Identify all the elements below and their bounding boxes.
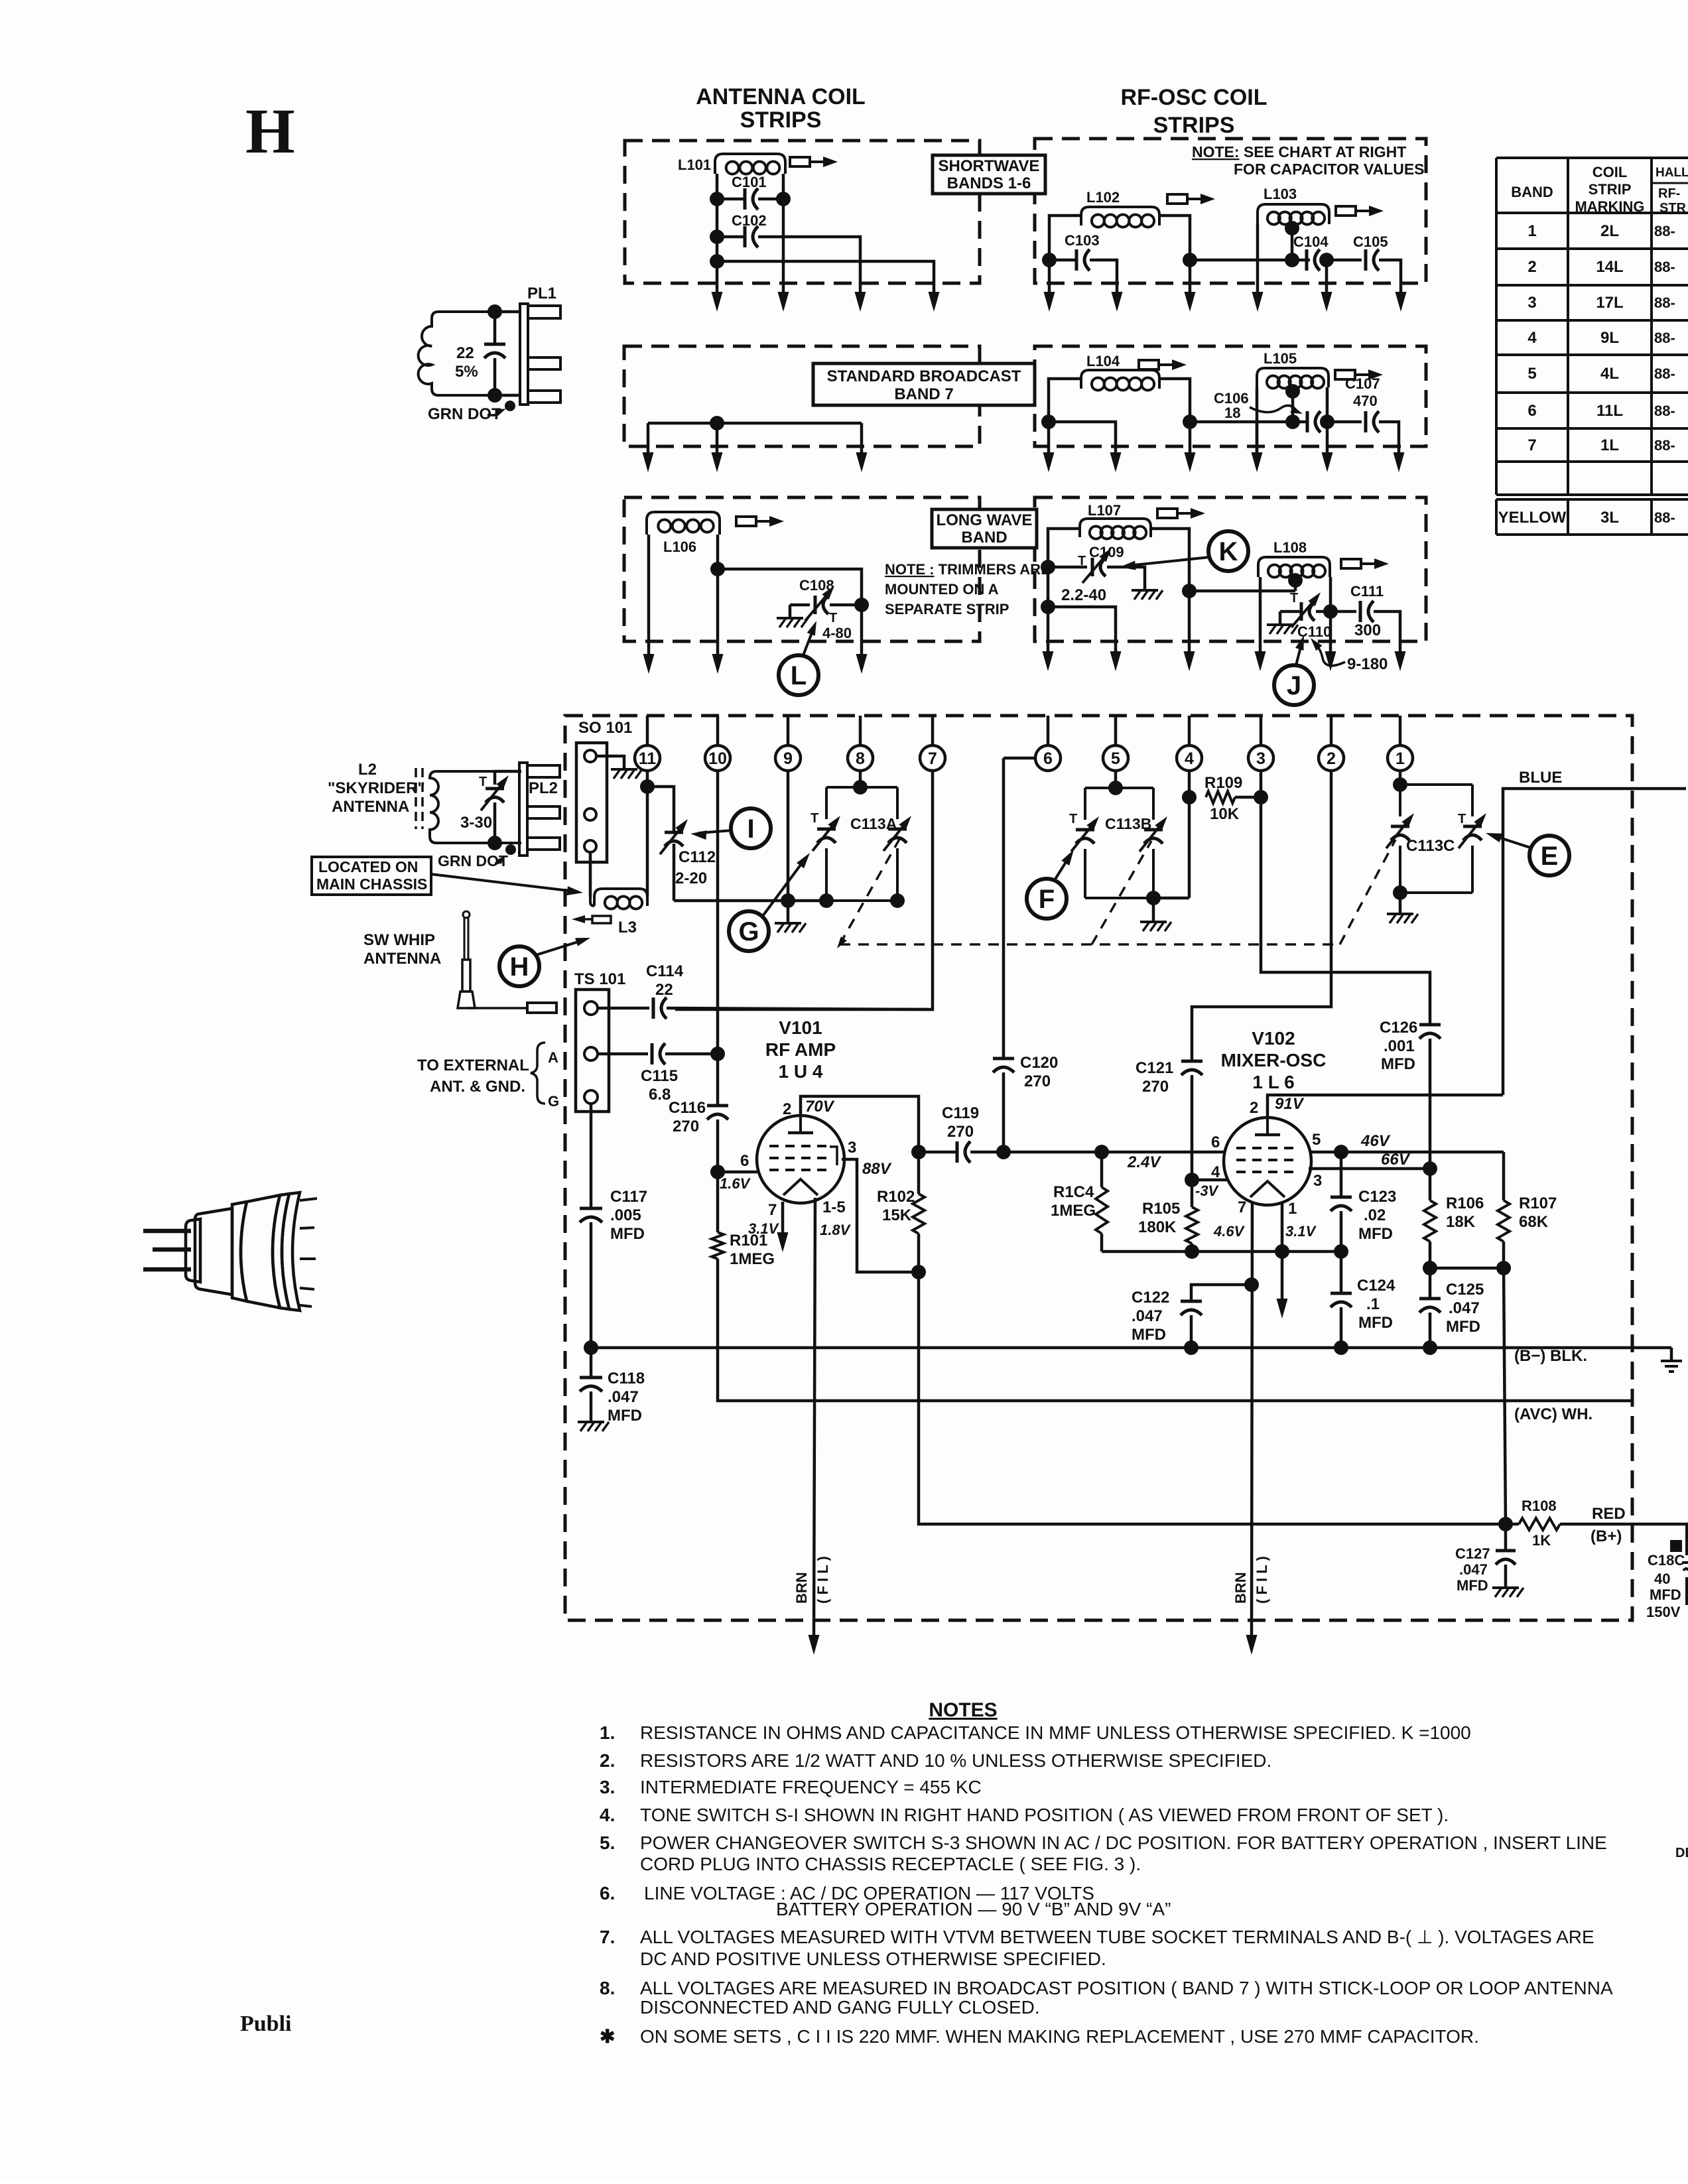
arrow down pin10 col (712, 292, 723, 312)
svg-text:6: 6 (1527, 402, 1536, 420)
junction (819, 893, 834, 908)
wire C109 left (1048, 566, 1087, 569)
svg-text:40: 40 (1654, 1571, 1670, 1587)
junction L108 tap (1288, 573, 1303, 588)
svg-text:GRN DOT: GRN DOT (438, 852, 508, 869)
svg-text:1: 1 (1396, 749, 1405, 768)
label box LOCATED ON MAIN CHASSIS (312, 857, 431, 895)
bracket grid (830, 1147, 837, 1165)
capacitor C111 (1359, 601, 1362, 622)
svg-text:300: 300 (1354, 621, 1381, 639)
junction (584, 1340, 598, 1355)
arrow down pin8 col (855, 292, 866, 312)
svg-text:.02: .02 (1364, 1206, 1386, 1224)
svg-text:C110: C110 (1297, 623, 1331, 640)
svg-text:C122: C122 (1132, 1289, 1169, 1307)
svg-text:1.8V: 1.8V (820, 1222, 852, 1238)
junction (1094, 1145, 1109, 1159)
svg-text:88V: 88V (862, 1160, 892, 1178)
svg-text:T: T (811, 811, 818, 826)
svg-text:C109: C109 (1089, 544, 1124, 560)
wire to pin5 col (1049, 422, 1116, 455)
junction (1319, 253, 1334, 267)
wire C115 left (598, 1053, 648, 1056)
capacitor C125 (1419, 1297, 1441, 1301)
plug PL2 prong 1 (527, 765, 560, 777)
svg-text:T: T (1290, 591, 1298, 606)
svg-text:L103: L103 (1264, 186, 1297, 202)
svg-text:C121: C121 (1136, 1059, 1173, 1077)
arrow down pin11 col (643, 452, 654, 472)
svg-text:2L: 2L (1600, 222, 1619, 240)
arrow down pin6 col (1043, 452, 1055, 472)
pin 5 stub (1114, 716, 1118, 745)
arrow down pin8 col (856, 452, 868, 472)
svg-text:46V: 46V (1360, 1132, 1391, 1150)
arrow down pin11 col (643, 654, 655, 674)
svg-text:(AVC) WH.: (AVC) WH. (1514, 1405, 1592, 1423)
wire V102 pin3 (1309, 1167, 1430, 1171)
svg-text:.047: .047 (608, 1388, 639, 1406)
svg-text:V102: V102 (1252, 1028, 1295, 1049)
wire gang bus (674, 899, 826, 903)
tube plug drawing (143, 1229, 191, 1234)
pin 6 stub (1047, 716, 1050, 745)
arrow V101 pin7 fil (777, 1232, 789, 1252)
wire V101 pin7 (781, 1202, 785, 1235)
arrow down pin7 col (929, 292, 940, 312)
plug PL1 prong 1 (528, 306, 560, 318)
wire C123 col top (1340, 1152, 1343, 1197)
wire col pin10 row1 lower (716, 237, 719, 261)
wire to pin5 col (1048, 607, 1116, 654)
wire BLUE B+ line (1503, 789, 1686, 1095)
wire to L108 tap (1189, 590, 1295, 593)
rf-osc strip box row2 (broadcast) (1035, 346, 1426, 446)
svg-text:YELLOW: YELLOW (1498, 509, 1567, 527)
svg-text:C113A: C113A (850, 815, 897, 832)
svg-text:2: 2 (1527, 258, 1536, 276)
svg-text:COIL: COIL (1592, 164, 1628, 180)
svg-text:470: 470 (1353, 393, 1378, 409)
svg-text:J: J (1287, 671, 1301, 700)
junction (710, 254, 724, 269)
junction L103 tap (1285, 221, 1299, 235)
svg-text:270: 270 (1024, 1072, 1051, 1090)
svg-text:1MEG: 1MEG (1051, 1202, 1096, 1220)
resistor R105 (1186, 1207, 1198, 1244)
squiggle 9-180 pointer (1315, 643, 1345, 666)
svg-text:ALL VOLTAGES ARE MEASURED: ALL VOLTAGES ARE MEASURED IN BROADCAST P… (640, 1978, 1613, 1998)
wire C121 down (1191, 1075, 1194, 1180)
terminal hole (584, 1090, 598, 1104)
circle F (1027, 879, 1067, 919)
wire R102 top (917, 1152, 921, 1194)
wire C111 link (1331, 610, 1356, 613)
svg-text:7: 7 (1527, 436, 1536, 454)
wire pin2 to C121 (1192, 771, 1331, 1061)
svg-text:5: 5 (1527, 365, 1536, 383)
label box SHORTWAVE BANDS 1-6 (933, 155, 1045, 194)
svg-text:LOCATED ON: LOCATED ON (318, 858, 418, 875)
svg-text:3.: 3. (600, 1777, 615, 1797)
arrow down pin10 col (712, 654, 724, 674)
coil L108 (1258, 557, 1330, 577)
arrow I to C112 (698, 830, 732, 833)
svg-text:MFD: MFD (1358, 1314, 1393, 1332)
wire L106 left leg (647, 535, 651, 657)
wire R101 down to AVC (718, 1259, 1632, 1401)
junction (1275, 1244, 1289, 1259)
wire C118 top (590, 1348, 593, 1378)
svg-text:4-80: 4-80 (822, 625, 852, 641)
svg-text:18K: 18K (1446, 1213, 1476, 1231)
trimmer C113A main (888, 828, 907, 831)
svg-text:C115: C115 (641, 1067, 678, 1085)
svg-text:1 L 6: 1 L 6 (1252, 1072, 1294, 1092)
wire pin3 col drop (1256, 422, 1259, 455)
junction (1108, 781, 1123, 795)
junction (1496, 1261, 1511, 1275)
wire C110 left (1280, 610, 1300, 613)
svg-text:5%: 5% (455, 363, 478, 381)
plug PL2 bar (519, 763, 527, 856)
svg-text:( F I L ): ( F I L ) (814, 1556, 831, 1604)
svg-text:RESISTANCE IN OHMS AND CAPACI: RESISTANCE IN OHMS AND CAPACITANCE IN MM… (640, 1722, 1471, 1743)
arrow L to C108 (803, 626, 814, 655)
loop antenna L1 (419, 312, 495, 395)
svg-text:4.: 4. (600, 1805, 615, 1825)
wire L108 tap (1294, 577, 1297, 591)
pin 5 circle (1103, 745, 1128, 771)
svg-text:17L: 17L (1596, 294, 1623, 312)
svg-text:G: G (738, 917, 759, 946)
svg-text:STRIP: STRIP (1589, 181, 1632, 198)
wire G terminal down (590, 1104, 593, 1208)
wire to PL1 (495, 310, 521, 314)
wire C101 left (717, 198, 745, 201)
wire pin6 col (1047, 567, 1050, 607)
wire pin6soc col (1002, 758, 1006, 1059)
arrow E to C113C T (1494, 836, 1530, 848)
wire R107 down (1504, 1268, 1506, 1524)
junction (1146, 891, 1161, 905)
whip antenna (463, 911, 470, 918)
junction (1183, 415, 1197, 429)
pin 4 stub (1188, 716, 1191, 745)
trimmer C112 (665, 831, 683, 834)
svg-text:R108: R108 (1522, 1498, 1557, 1514)
capacitor C114 (652, 997, 655, 1019)
circle I (731, 808, 771, 848)
wire pin4 col drop (1189, 422, 1192, 455)
capacitor C102 (744, 226, 747, 247)
wire L103 left lead (1256, 224, 1260, 294)
svg-text:G: G (548, 1093, 559, 1110)
wire col pin10 row1 (716, 199, 719, 237)
circle K (1208, 531, 1248, 571)
svg-text:C101: C101 (732, 174, 767, 190)
wire pin4 col drop (1189, 260, 1192, 294)
wire pin5 to C113B (1114, 771, 1118, 788)
svg-text:C18C: C18C (1648, 1552, 1685, 1569)
wire L105 right lead (1326, 387, 1329, 422)
wire C102 to pin8 col (758, 237, 860, 294)
svg-text:PL1: PL1 (527, 285, 556, 302)
label box STANDARD BROADCAST BAND 7 (813, 363, 1035, 405)
svg-text:1: 1 (1288, 1200, 1297, 1218)
capacitor C123 (1331, 1196, 1352, 1199)
junction (1423, 1340, 1437, 1355)
capacitor C124 (1331, 1292, 1352, 1295)
pin 8 stub (859, 716, 862, 745)
svg-text:7: 7 (928, 749, 937, 768)
svg-text:SHORTWAVE: SHORTWAVE (939, 157, 1040, 175)
svg-text:88-: 88- (1654, 437, 1675, 454)
junction (1184, 1340, 1199, 1355)
svg-text:C127: C127 (1455, 1545, 1490, 1562)
ground earth B- (1661, 1360, 1682, 1362)
brace (531, 1043, 545, 1104)
junction (1185, 1173, 1199, 1187)
pin 2 stub (1330, 716, 1333, 745)
svg-text:2: 2 (783, 1100, 791, 1118)
capacitor C104 (1305, 249, 1309, 271)
junction (1041, 415, 1056, 429)
svg-text:2.: 2. (600, 1750, 615, 1771)
rf-osc strip box row3 (longwave) (1035, 497, 1426, 641)
antenna strip box row1 (shortwave) (625, 141, 980, 283)
junction (890, 893, 905, 908)
svg-text:(B−) BLK.: (B−) BLK. (1514, 1347, 1587, 1365)
tube V102 envelope (1224, 1118, 1311, 1205)
junction (1423, 1161, 1437, 1176)
capacitor C121 (1181, 1060, 1202, 1063)
svg-text:ON SOME SETS , C I I IS 22: ON SOME SETS , C I I IS 220 MMF. WHEN MA… (640, 2026, 1479, 2047)
svg-text:.005: .005 (610, 1206, 641, 1224)
svg-text:7: 7 (768, 1201, 777, 1219)
svg-text:4.6V: 4.6V (1213, 1223, 1246, 1240)
svg-text:C117: C117 (610, 1188, 647, 1206)
svg-text:BRN: BRN (793, 1572, 810, 1604)
wire R109 right (1235, 796, 1261, 799)
capacitor C105 (1364, 249, 1368, 271)
arrow down pin8 col (856, 654, 868, 674)
svg-text:F: F (1039, 885, 1055, 914)
svg-text:88-: 88- (1654, 365, 1675, 382)
resistor R108 (1519, 1518, 1560, 1530)
trimmer C113C T (1463, 825, 1482, 828)
ground C110 (1267, 623, 1293, 626)
coil L2 core dashes (415, 768, 417, 829)
indicator row3 (736, 517, 756, 526)
arrow down pin9 col (778, 292, 789, 312)
terminal hole (584, 1001, 598, 1015)
svg-text:MFD: MFD (1446, 1318, 1480, 1336)
svg-text:MFD: MFD (1358, 1225, 1393, 1243)
coil L106 (647, 512, 720, 535)
wire pin10 col to arrow (716, 261, 719, 294)
indicator L108 (1341, 559, 1361, 568)
arrow down pin3 col (1252, 292, 1264, 312)
wire C104 right (1323, 259, 1327, 262)
wire L103 tap (1291, 224, 1294, 260)
svg-text:11: 11 (639, 749, 657, 768)
wire B+ drop (919, 1272, 1506, 1524)
svg-text:9-180: 9-180 (1347, 655, 1388, 673)
wire L3 right lead (646, 787, 649, 897)
svg-text:C105: C105 (1353, 233, 1388, 250)
svg-text:PL2: PL2 (529, 779, 558, 797)
svg-text:C102: C102 (732, 212, 767, 229)
svg-text:T: T (1458, 812, 1466, 826)
arrow down pin1 col (1396, 292, 1407, 312)
svg-text:T: T (829, 611, 837, 625)
pin 10 circle (705, 745, 730, 771)
wire L108 right lead (1329, 577, 1332, 654)
junction (911, 1265, 926, 1279)
ground C109 (1132, 589, 1158, 592)
wire row2 left leg (647, 423, 650, 455)
coil L107 (1080, 519, 1151, 537)
ground pin9 (775, 922, 801, 925)
svg-text:-3V: -3V (1195, 1183, 1220, 1199)
svg-text:6.: 6. (600, 1883, 615, 1903)
svg-text:88-: 88- (1654, 223, 1675, 239)
capacitor C106 (1306, 411, 1309, 432)
wire V102 pin1 (1281, 1202, 1284, 1301)
wire C118 to gnd (590, 1391, 593, 1421)
svg-text:C124: C124 (1357, 1277, 1396, 1295)
svg-text:STR: STR (1659, 201, 1687, 216)
svg-text:L3: L3 (618, 919, 637, 936)
wire V101 pin3 (842, 1159, 919, 1272)
pin 9 circle (775, 745, 801, 771)
svg-text:ANTENNA: ANTENNA (363, 950, 441, 968)
svg-text:FOR CAPACITOR VALUES: FOR CAPACITOR VALUES (1234, 161, 1425, 178)
svg-text:C118: C118 (608, 1370, 645, 1387)
arrow down pin2 col (1322, 452, 1333, 472)
junction (1042, 253, 1057, 267)
svg-text:H: H (510, 952, 529, 982)
arrow down pin6 col (1044, 292, 1055, 312)
junction (996, 1145, 1011, 1159)
wire V101 pin6 (718, 1171, 758, 1174)
wire C111 right corner (1374, 611, 1400, 654)
svg-text:C107: C107 (1345, 375, 1380, 392)
coil L102 (1081, 207, 1159, 225)
svg-text:C123: C123 (1358, 1188, 1396, 1206)
svg-text:3: 3 (1256, 749, 1266, 768)
svg-text:BAND: BAND (1511, 184, 1553, 200)
capacitor C120 (993, 1057, 1014, 1060)
svg-text:RF-: RF- (1658, 186, 1680, 201)
wire row2 bus (648, 422, 862, 425)
svg-text:2: 2 (1250, 1099, 1258, 1117)
capacitor C117 (580, 1207, 602, 1210)
wire R108 right to edge (1560, 1523, 1688, 1526)
svg-text:5: 5 (1312, 1131, 1321, 1149)
svg-text:C113C: C113C (1406, 837, 1455, 855)
junction (781, 893, 795, 908)
wire C113B gnd stub (1152, 898, 1155, 921)
wire pin1 to C113C (1399, 771, 1402, 785)
label C18C block (1670, 1540, 1682, 1552)
capacitor C122 (1181, 1300, 1202, 1303)
svg-text:BAND 7: BAND 7 (894, 385, 953, 403)
svg-text:L108: L108 (1273, 539, 1307, 556)
svg-text:22: 22 (655, 981, 673, 999)
svg-text:180K: 180K (1138, 1218, 1177, 1236)
wire L102 left lead (1049, 216, 1081, 260)
circle J (1274, 665, 1314, 705)
svg-text:C125: C125 (1446, 1281, 1484, 1299)
arrow H to L3 (536, 940, 582, 955)
indicator L105 (1335, 370, 1355, 379)
arrow down pin4 col (1185, 292, 1196, 312)
wire C120 down (1002, 1072, 1006, 1152)
wire C125 bottom (1429, 1313, 1432, 1348)
svg-text:4L: 4L (1600, 365, 1619, 383)
svg-text:DE: DE (1675, 1846, 1688, 1860)
arrow down pin4 col (1185, 452, 1196, 472)
wire socket bottom to L3 (589, 852, 592, 897)
ground C127 (1492, 1586, 1519, 1589)
svg-text:STRIPS: STRIPS (740, 107, 822, 133)
circle G (729, 911, 769, 951)
svg-text:MIXER-OSC: MIXER-OSC (1221, 1050, 1327, 1070)
svg-text:22: 22 (456, 344, 474, 362)
svg-text:MFD: MFD (1650, 1586, 1681, 1603)
pin 3 stub (1260, 716, 1263, 745)
svg-text:270: 270 (673, 1118, 699, 1135)
junction (1285, 415, 1300, 429)
svg-text:6: 6 (1043, 749, 1053, 768)
svg-text:10K: 10K (1210, 805, 1240, 823)
svg-text:1.: 1. (600, 1722, 615, 1743)
svg-text:C104: C104 (1293, 233, 1329, 250)
arrow down pin4 col (1184, 651, 1195, 671)
svg-text:Publi: Publi (240, 2012, 291, 2036)
circle E (1529, 836, 1569, 875)
svg-text:L107: L107 (1088, 502, 1121, 519)
junction (1182, 584, 1197, 598)
svg-text:DC AND POSITIVE UNLESS OTH: DC AND POSITIVE UNLESS OTHERWISE SPECIFI… (640, 1949, 1106, 1969)
svg-text:A: A (548, 1049, 558, 1066)
resistor R102 (913, 1194, 925, 1234)
svg-text:RF AMP: RF AMP (765, 1039, 836, 1060)
svg-text:R102: R102 (877, 1188, 915, 1206)
wire C109 right (1107, 567, 1145, 589)
capacitor C107 (1364, 411, 1368, 432)
svg-text:BAND: BAND (961, 529, 1007, 546)
wire C112 bottom (673, 844, 676, 901)
junction (1182, 790, 1197, 804)
label BRN FIL left (793, 1572, 810, 1604)
svg-text:MFD: MFD (1381, 1055, 1415, 1073)
trimmer C109 (1091, 558, 1094, 576)
svg-text:POWER CHANGEOVER SWITCH S-3: POWER CHANGEOVER SWITCH S-3 SHOWN IN AC … (640, 1832, 1607, 1853)
junction (710, 1047, 725, 1061)
svg-text:4: 4 (1211, 1163, 1220, 1181)
junction (487, 836, 502, 850)
wire to C107 (1327, 420, 1362, 424)
svg-text:ANTENNA COIL: ANTENNA COIL (696, 84, 866, 109)
coil L101 (715, 154, 785, 174)
capacitor C101 (744, 188, 747, 210)
svg-text:( F I L ): ( F I L ) (1254, 1556, 1270, 1604)
wire C123 bottom (1340, 1211, 1343, 1252)
